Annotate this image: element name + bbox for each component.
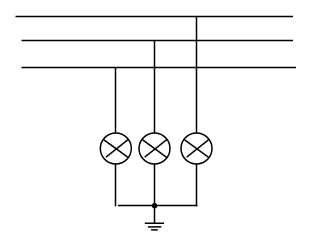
wire: L3 to lamp E1 top [115, 68, 117, 134]
wire: bottom return bus [118, 205, 198, 207]
wire: L2 to lamp E2 top [154, 41, 156, 134]
bus line L1 (top phase wire) [16, 16, 294, 18]
bus line L3 (bottom phase wire) [22, 67, 297, 69]
lamp E2 (middle, circle with X) [139, 133, 170, 164]
wire: lamp E3 bottom drop [196, 164, 198, 207]
wire: lamp E2 bottom drop [154, 164, 156, 206]
wire: junction to ground [154, 206, 156, 224]
lamp E3 (right, circle with X) [181, 133, 212, 164]
ground (earth symbol, three bars) [145, 223, 164, 230]
wire: lamp E1 bottom drop [115, 164, 117, 207]
wire: L1 to lamp E3 top [196, 17, 198, 134]
node: junction dot on return bus [152, 203, 158, 209]
bus line L2 (middle phase wire) [22, 40, 294, 42]
lamp E1 (left, circle with X) [100, 133, 131, 164]
